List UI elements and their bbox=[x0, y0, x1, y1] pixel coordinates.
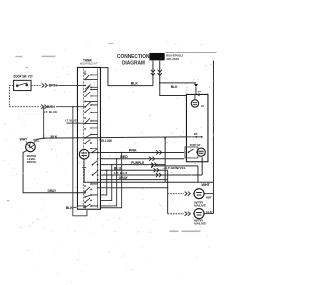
start switch inner box bbox=[185, 147, 198, 158]
hot valve wire dashed bbox=[168, 193, 184, 195]
MOTOR box bbox=[186, 94, 208, 161]
wire B from door box left, down, to timer bbox=[9, 85, 40, 106]
wire PURPLE row bbox=[100, 164, 165, 166]
svg-text:RED: RED bbox=[120, 155, 128, 159]
wire GRAY row bbox=[100, 179, 167, 181]
svg-text:YELLOW: YELLOW bbox=[99, 139, 112, 143]
wire LT BLU row bbox=[100, 174, 202, 176]
chevron down into motor bbox=[194, 84, 198, 87]
svg-text:BLK: BLK bbox=[66, 206, 74, 210]
wire A continue to timer bbox=[56, 84, 77, 86]
door switch box bbox=[14, 80, 32, 90]
power drop line L2 bbox=[160, 61, 187, 96]
power drop L1 connector chevron bbox=[151, 70, 155, 76]
wire A chevron bbox=[42, 83, 48, 87]
svg-text:CLD: CLD bbox=[206, 210, 212, 214]
power drop line L1 bbox=[152, 61, 154, 86]
chevrons BLU row bbox=[154, 168, 159, 172]
risers from timer bottom to bundle rows bbox=[100, 152, 121, 207]
wire B branch down left of timer bbox=[73, 107, 87, 216]
svg-text:VALVE: VALVE bbox=[194, 203, 206, 207]
svg-text:HOT: HOT bbox=[206, 196, 212, 200]
timer contacts bottom cluster bbox=[84, 183, 92, 208]
title CONNECTION DIAGRAM bbox=[117, 54, 150, 67]
svg-text:BK: BK bbox=[194, 132, 198, 136]
power drop L2 connector chevron bbox=[158, 70, 162, 76]
timer motor circle bbox=[79, 149, 89, 159]
water level switch internals bbox=[27, 142, 33, 149]
svg-text:GRAY: GRAY bbox=[47, 189, 56, 193]
timer inner vertical right bbox=[97, 68, 99, 208]
label WHT motor top right bbox=[186, 87, 188, 95]
motor mid terminals bbox=[195, 136, 197, 138]
svg-text:DOOR SW. V10: DOOR SW. V10 bbox=[13, 74, 32, 78]
vertical joining yellow row to purple row bbox=[164, 138, 166, 165]
svg-text:W10-PX812 KIT: W10-PX812 KIT bbox=[80, 62, 98, 66]
svg-text:VALVE: VALVE bbox=[194, 222, 206, 226]
gray wire pressure switch to timer bottom bbox=[23, 150, 77, 192]
svg-text:LT. BLU: LT. BLU bbox=[114, 171, 127, 175]
svg-text:BLK: BLK bbox=[131, 81, 139, 85]
valve branch vertical bbox=[167, 170, 169, 214]
svg-text:PNK: PNK bbox=[129, 149, 138, 153]
cold valve wire dashed bbox=[168, 213, 184, 215]
motor main winding circle bbox=[194, 94, 196, 99]
svg-text:BRN: BRN bbox=[49, 84, 57, 88]
faint bottom smudges bbox=[7, 200, 201, 232]
timer contacts right mid (bundle exits) bbox=[92, 152, 99, 181]
water level switch circle bbox=[26, 142, 36, 152]
stub into timer bbox=[73, 206, 77, 208]
extra wire timer to valves bbox=[97, 187, 168, 189]
wire LT GRN/YEL bbox=[156, 165, 198, 167]
svg-text:LT. BLUE: LT. BLUE bbox=[65, 118, 77, 122]
svg-text:WHT: WHT bbox=[20, 137, 28, 141]
hot valve circle bbox=[194, 189, 204, 199]
wire L2 to motor terminal bbox=[160, 82, 196, 84]
timer contacts upper bbox=[84, 73, 92, 144]
svg-text:DIAGRAM: DIAGRAM bbox=[122, 61, 145, 67]
wire PNK row bbox=[100, 151, 184, 153]
terminal tick bbox=[198, 90, 202, 92]
svg-text:BLK: BLK bbox=[171, 85, 179, 89]
cold valve chevron bbox=[185, 212, 191, 216]
timer entry ties bbox=[77, 79, 100, 206]
svg-text:GRAY: GRAY bbox=[119, 176, 129, 180]
stub wire at timer left bbox=[66, 122, 77, 124]
chevrons LT.BLU row bbox=[156, 173, 161, 177]
title rule line bbox=[165, 52, 216, 54]
cold valve text bbox=[194, 219, 206, 226]
wire into motor top bbox=[195, 87, 197, 94]
feed wire to valves bbox=[84, 169, 213, 214]
door switch contacts bbox=[16, 83, 27, 87]
svg-text:CONNECTION: CONNECTION bbox=[117, 54, 150, 60]
wire B continue to timer bbox=[56, 106, 77, 108]
wire BLU row bbox=[100, 169, 167, 171]
timer motor text lines bbox=[81, 153, 87, 156]
svg-text:SWITCH: SWITCH bbox=[27, 160, 37, 164]
svg-text:PURPLE: PURPLE bbox=[131, 161, 144, 165]
svg-text:LT. BLUE: LT. BLUE bbox=[44, 110, 58, 114]
wire B branch down to yellow wire bbox=[43, 107, 45, 139]
pressure switch top-right stub bbox=[34, 139, 37, 143]
water level switch text bbox=[27, 154, 37, 164]
pressure switch top-left stub bbox=[26, 141, 27, 143]
hot valve chevron bbox=[185, 192, 191, 196]
svg-text:BRN: BRN bbox=[47, 105, 55, 109]
hot valve text bbox=[194, 200, 206, 207]
motor top terminals bbox=[198, 94, 200, 96]
svg-text:OL: OL bbox=[201, 104, 205, 108]
right edge vertical bbox=[212, 60, 214, 182]
cold valve circle bbox=[194, 209, 204, 219]
svg-text:START SW: START SW bbox=[190, 143, 201, 147]
faint smudge top left bbox=[15, 43, 113, 68]
wire RED row bbox=[100, 158, 184, 160]
node wire B junction bbox=[43, 106, 45, 108]
title black box bbox=[149, 53, 164, 60]
wire A from door box to timer bbox=[31, 84, 41, 86]
yellow wire from pressure switch to motor bbox=[36, 137, 186, 140]
start winding circle bbox=[197, 148, 205, 156]
timer inner vertical left bbox=[82, 68, 84, 208]
timer motor stub down bbox=[82, 159, 86, 167]
timer box bbox=[77, 67, 100, 209]
svg-text:+ LT.GRN/YEL: + LT.GRN/YEL bbox=[163, 166, 186, 170]
timer extra contacts detail bbox=[84, 74, 91, 149]
scan speckle noise bbox=[5, 41, 215, 283]
purple drop to feed bbox=[164, 165, 166, 183]
title part number text bbox=[166, 54, 183, 62]
wire B chevron bbox=[41, 105, 47, 109]
wire timer top to L1 bbox=[100, 68, 153, 86]
